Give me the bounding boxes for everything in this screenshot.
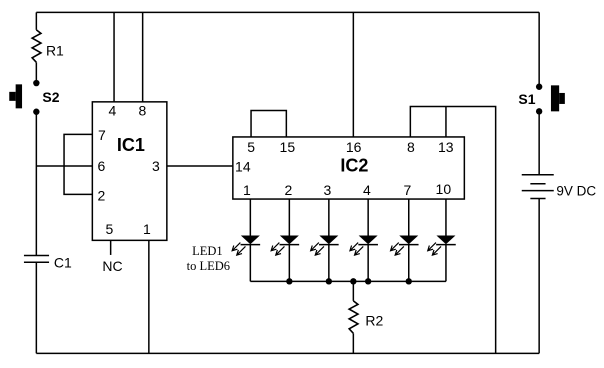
svg-text:16: 16 bbox=[346, 139, 362, 155]
svg-text:3: 3 bbox=[152, 158, 160, 174]
svg-text:13: 13 bbox=[438, 139, 454, 155]
svg-text:8: 8 bbox=[138, 102, 146, 118]
svg-text:10: 10 bbox=[436, 181, 452, 197]
svg-text:2: 2 bbox=[97, 187, 105, 203]
svg-text:C1: C1 bbox=[54, 255, 72, 271]
svg-text:R2: R2 bbox=[365, 312, 383, 328]
svg-text:6: 6 bbox=[97, 158, 105, 174]
svg-text:R1: R1 bbox=[46, 42, 64, 58]
svg-text:7: 7 bbox=[403, 182, 411, 198]
svg-text:S1: S1 bbox=[518, 91, 535, 107]
svg-text:to LED6: to LED6 bbox=[187, 259, 230, 273]
svg-text:LED1: LED1 bbox=[192, 244, 223, 258]
svg-text:8: 8 bbox=[407, 139, 415, 155]
svg-text:1: 1 bbox=[243, 182, 251, 198]
svg-text:7: 7 bbox=[98, 127, 106, 143]
svg-text:9V DC: 9V DC bbox=[556, 183, 596, 198]
svg-text:IC2: IC2 bbox=[340, 155, 368, 175]
svg-text:4: 4 bbox=[363, 182, 371, 198]
svg-text:2: 2 bbox=[284, 182, 292, 198]
svg-text:3: 3 bbox=[323, 182, 331, 198]
svg-text:NC: NC bbox=[102, 258, 122, 274]
svg-text:5: 5 bbox=[247, 139, 255, 155]
svg-text:5: 5 bbox=[105, 221, 113, 237]
svg-text:4: 4 bbox=[108, 102, 116, 118]
svg-text:S2: S2 bbox=[42, 89, 59, 105]
svg-text:15: 15 bbox=[280, 139, 296, 155]
svg-text:14: 14 bbox=[235, 158, 251, 174]
svg-text:1: 1 bbox=[143, 221, 151, 237]
svg-text:IC1: IC1 bbox=[117, 135, 145, 155]
